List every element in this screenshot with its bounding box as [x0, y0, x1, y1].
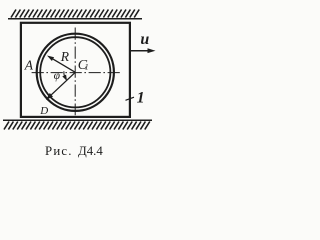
ceiling hatching: [11, 10, 139, 18]
svg-text:φ: φ: [54, 70, 61, 82]
vertical centerline: [74, 28, 76, 116]
floor line: [3, 119, 152, 121]
svg-text:1: 1: [137, 90, 145, 107]
floor hatching: [4, 122, 150, 130]
svg-text:u: u: [140, 31, 149, 48]
svg-text:Рис.: Рис.: [45, 144, 73, 158]
ceiling line: [8, 18, 142, 20]
plate (body 1) square outline: [21, 23, 130, 117]
leader line for body 1: [126, 97, 135, 100]
radius arrow R: [53, 59, 75, 72]
velocity arrow u: [131, 50, 149, 52]
ring channel inner circle: [40, 37, 110, 107]
svg-text:1: 1: [85, 63, 89, 72]
svg-text:R: R: [60, 49, 70, 64]
svg-text:D: D: [39, 105, 48, 117]
angle arc phi: [63, 71, 66, 76]
svg-text:A: A: [24, 58, 34, 73]
paper background: [0, 0, 159, 165]
arrow to point D: [51, 72, 75, 95]
svg-text:Д4.4: Д4.4: [78, 144, 103, 158]
ring channel outer circle: [37, 34, 114, 111]
horizontal centerline: [32, 72, 121, 74]
